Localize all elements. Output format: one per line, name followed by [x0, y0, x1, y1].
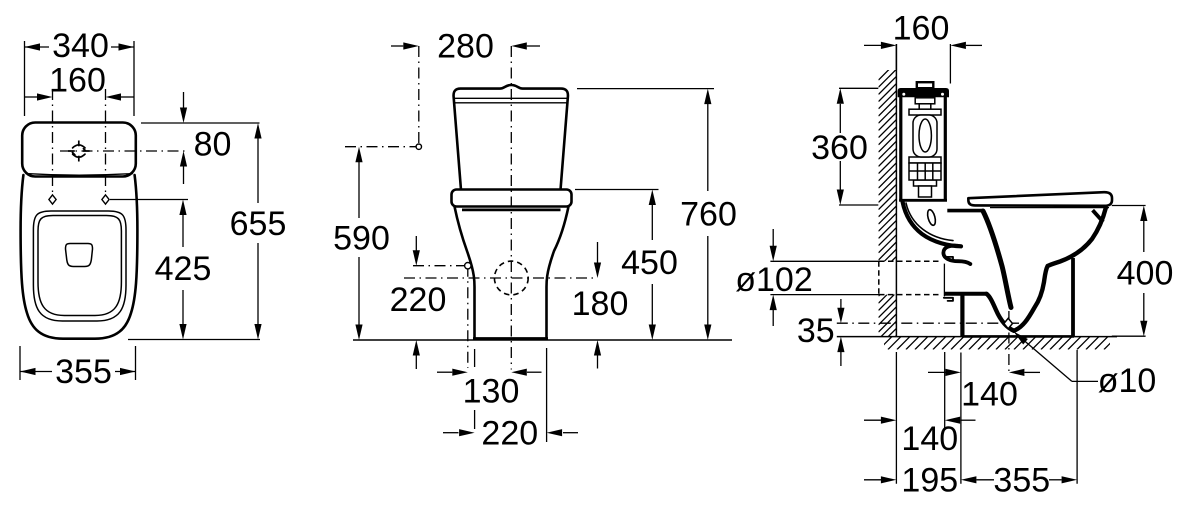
svg-text:360: 360: [811, 129, 868, 167]
svg-text:130: 130: [463, 373, 520, 411]
svg-text:220: 220: [390, 281, 447, 319]
svg-text:425: 425: [155, 250, 212, 288]
svg-text:80: 80: [194, 126, 232, 164]
svg-text:160: 160: [49, 62, 106, 100]
svg-text:280: 280: [437, 28, 494, 66]
svg-text:760: 760: [680, 196, 737, 234]
svg-text:220: 220: [481, 415, 538, 453]
svg-text:ø10: ø10: [1098, 362, 1157, 400]
svg-text:160: 160: [893, 10, 950, 48]
svg-text:140: 140: [961, 375, 1018, 413]
svg-text:195: 195: [901, 462, 958, 500]
svg-text:355: 355: [55, 353, 112, 391]
svg-text:180: 180: [572, 285, 629, 323]
svg-text:140: 140: [901, 420, 958, 458]
svg-text:450: 450: [621, 244, 678, 282]
svg-text:400: 400: [1117, 255, 1174, 293]
svg-text:35: 35: [797, 312, 835, 350]
svg-text:590: 590: [333, 220, 390, 258]
svg-text:ø102: ø102: [735, 261, 813, 299]
svg-text:355: 355: [993, 462, 1050, 500]
svg-text:655: 655: [230, 205, 287, 243]
svg-text:340: 340: [52, 27, 109, 65]
